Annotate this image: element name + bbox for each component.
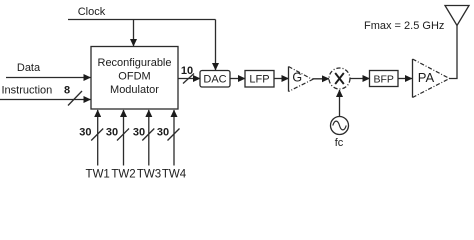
svg-text:30: 30 [133, 127, 145, 139]
wire TW3 [148, 110, 150, 166]
wire mixer to BFP [350, 78, 370, 80]
bus slash TW3 [142, 129, 154, 141]
svg-text:30: 30 [157, 127, 169, 139]
svg-text:PA: PA [418, 70, 435, 85]
svg-text:Clock: Clock [78, 6, 106, 18]
wire PA to antenna [450, 26, 458, 79]
svg-text:8: 8 [64, 85, 70, 97]
svg-text:Reconfigurable: Reconfigurable [98, 57, 172, 69]
wire clock drop to DAC [215, 20, 217, 71]
wire DAC to LFP [230, 78, 245, 80]
oscillator fc [331, 117, 349, 135]
wire Instruction input [0, 99, 91, 101]
svg-text:TW4: TW4 [162, 169, 187, 181]
amplifier U4 G (tunable, dashed) [289, 67, 313, 92]
block U2 DAC [200, 71, 230, 88]
svg-text:Instruction: Instruction [2, 85, 53, 97]
wire Data input [6, 77, 91, 79]
svg-text:OFDM: OFDM [118, 71, 150, 83]
wire clock horizontal [68, 19, 216, 21]
svg-text:30: 30 [106, 127, 118, 139]
bus slash TW4 [168, 129, 180, 141]
svg-text:TW3: TW3 [137, 169, 161, 181]
svg-text:Modulator: Modulator [110, 84, 159, 96]
svg-text:Fmax = 2.5 GHz: Fmax = 2.5 GHz [364, 20, 444, 32]
bus slash 10 [183, 74, 194, 84]
mixer U5 X (tunable, dashed) [329, 68, 350, 89]
svg-text:BFP: BFP [373, 74, 393, 86]
svg-text:TW1: TW1 [86, 169, 110, 181]
block U1 Reconfigurable OFDM Modulator [91, 47, 178, 110]
wire clock drop to modulator [133, 20, 135, 47]
antenna [445, 6, 469, 26]
wire fc oscillator to mixer [339, 90, 341, 117]
wire TW1 [97, 110, 99, 166]
amplifier U7 PA (tunable, dashed) [413, 59, 450, 98]
bus slash instruction [68, 91, 82, 106]
svg-text:Data: Data [17, 62, 41, 74]
svg-text:LFP: LFP [249, 74, 269, 86]
wire TW2 [123, 110, 125, 166]
svg-text:30: 30 [79, 127, 91, 139]
wire modulator to DAC [178, 78, 200, 80]
wire TW4 [173, 110, 175, 166]
block U6 BFP [370, 71, 399, 87]
svg-text:G: G [292, 71, 302, 85]
block U3 LFP [245, 71, 274, 88]
bus slash TW2 [117, 129, 129, 141]
wire BFP to PA [398, 78, 412, 80]
wire LFP to G amp [274, 78, 289, 80]
wire G to mixer [313, 78, 330, 80]
svg-text:fc: fc [335, 137, 344, 149]
svg-text:TW2: TW2 [111, 169, 135, 181]
bus slash TW1 [91, 129, 103, 141]
svg-text:DAC: DAC [203, 74, 226, 86]
